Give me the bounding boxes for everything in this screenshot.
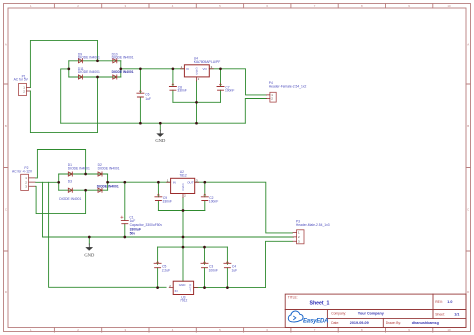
regulator U4: [180, 57, 220, 82]
diode D4: [97, 185, 119, 193]
svg-text:100nF: 100nF: [209, 268, 218, 272]
svg-text:DIODE IN4001: DIODE IN4001: [112, 56, 134, 60]
svg-text:Sheet:: Sheet:: [435, 313, 445, 317]
svg-text:AC for 5V: AC for 5V: [14, 78, 29, 82]
svg-text:A: A: [5, 43, 7, 47]
junction C8 top: [172, 67, 175, 70]
junction C4 bottom: [226, 286, 229, 289]
junction bridge2 AC2 tap: [84, 189, 87, 192]
junction C5 bottom: [156, 286, 159, 289]
capacitor C5: [154, 247, 170, 287]
junction C9 top: [157, 181, 160, 184]
junction U2 gnd chain ground bus: [182, 236, 185, 239]
ground symbol top circuit: [155, 123, 166, 143]
junction bridge1 negative tie: [67, 68, 70, 71]
output rail U4 to P4: [209, 69, 266, 95]
junction bridge2 negative tie: [57, 181, 60, 184]
junction bridge1 AC1 tap: [96, 59, 99, 62]
output rail U2 to P3 pin1: [195, 182, 293, 233]
bridge1 left tie wire: [68, 61, 70, 77]
svg-text:GND: GND: [155, 138, 166, 143]
junction C3 top: [203, 246, 206, 249]
regulator U3: [169, 281, 197, 302]
svg-text:VO: VO: [203, 67, 208, 71]
svg-text:100nF: 100nF: [209, 200, 218, 204]
capacitor C4: [224, 247, 237, 288]
junction C6 top: [139, 67, 142, 70]
svg-text:7812: 7812: [179, 173, 187, 177]
svg-text:DIODE IN4001: DIODE IN4001: [112, 70, 134, 74]
capacitor C7: [217, 69, 234, 102]
svg-text:Drawn By:: Drawn By:: [386, 321, 401, 325]
svg-text:B: B: [467, 124, 469, 128]
main ground bus bottom circuit: [43, 236, 294, 238]
wire P1 pin2 to bridge AC2: [30, 77, 97, 133]
svg-text:A: A: [467, 43, 469, 47]
bridge2 right tie wire: [107, 174, 109, 190]
junction bridge2 AC1 tap: [84, 173, 87, 176]
wire P2 pin2 to bridge2 negative tie: [36, 181, 59, 183]
regulator U2: [167, 170, 199, 198]
diode D1: [68, 163, 90, 176]
junction U4 gnd local bus: [195, 101, 198, 104]
ground rail top circuit: [61, 122, 246, 124]
diode D9: [78, 52, 100, 63]
svg-text:C: C: [467, 208, 469, 212]
svg-text:1.0: 1.0: [447, 300, 452, 304]
wire U2 GND chain down to U3: [182, 198, 184, 282]
bridge2 rail top wire: [59, 173, 108, 175]
svg-text:Your Company: Your Company: [358, 312, 385, 316]
junction C6 bottom ground rail: [139, 122, 142, 125]
svg-text:100nF: 100nF: [225, 89, 234, 93]
junction bridge2 positive tie: [106, 181, 109, 184]
junction C1 bottom ground bus: [123, 236, 126, 239]
svg-text:Header-Female-2.54_1x2: Header-Female-2.54_1x2: [269, 85, 307, 89]
junction bridge1 positive tie: [119, 67, 122, 70]
capacitor C8: [169, 69, 186, 102]
wire P1 pin1 to bridge AC1: [30, 40, 97, 87]
svg-text:D: D: [5, 290, 7, 294]
svg-text:DIODE IN4001: DIODE IN4001: [78, 70, 100, 74]
junction U4 gnd ground rail: [195, 122, 198, 125]
EasyEDA logo: [288, 311, 328, 324]
capacitor C1 3300uF: [121, 182, 163, 236]
positive rail bridge1 to U4: [121, 68, 185, 70]
positive rail bridge2 to U2: [108, 181, 171, 183]
svg-text:C: C: [5, 208, 7, 212]
junction C2 top: [203, 181, 206, 184]
svg-text:50v: 50v: [130, 231, 136, 235]
svg-text:B: B: [5, 124, 7, 128]
svg-text:1uF: 1uF: [232, 268, 238, 272]
wire ground rail to P4 pin2: [245, 99, 266, 124]
svg-text:REV:: REV:: [435, 300, 443, 304]
wire P2 pin1 to bridge2 AC1: [36, 150, 86, 178]
diode D12: [112, 70, 134, 79]
svg-text:GND: GND: [84, 253, 95, 258]
wire ground drop from pin2: [42, 182, 44, 236]
local ground bus U2: [158, 210, 204, 212]
svg-text:DIODE IN4001: DIODE IN4001: [97, 185, 119, 189]
svg-text:D: D: [196, 72, 198, 76]
svg-text:330nF: 330nF: [163, 200, 172, 204]
svg-text:1/1: 1/1: [454, 313, 459, 317]
svg-text:Company:: Company:: [331, 312, 346, 316]
capacitor C6: [137, 69, 151, 123]
capacitor C3: [201, 247, 218, 288]
bridge1 right tie wire: [120, 61, 122, 77]
junction ground symbol tap bottom circuit: [88, 236, 91, 239]
svg-text:D: D: [182, 188, 184, 192]
svg-text:Date:: Date:: [331, 321, 339, 325]
svg-text:330nF: 330nF: [177, 89, 186, 93]
svg-text:7912: 7912: [180, 299, 188, 303]
svg-text:VI: VI: [186, 67, 189, 71]
bridge1 rail bottom wire: [69, 76, 121, 78]
svg-text:EasyEDA: EasyEDA: [303, 318, 328, 324]
junction gnd chain sub rail: [182, 246, 185, 249]
svg-text:Sheet_1: Sheet_1: [310, 301, 330, 307]
svg-text:Header-Male-2.54_1x3: Header-Male-2.54_1x3: [296, 223, 330, 227]
wire bridge1 negative to ground rail: [61, 69, 69, 123]
connector P2 AC for +/-12V: [12, 166, 35, 191]
wire negative drop to U3: [49, 182, 167, 287]
ground symbol bottom circuit: [84, 237, 95, 258]
capacitor C9: [155, 182, 172, 210]
output rail U3 to P3 pin3: [194, 241, 293, 287]
junction C1 top: [123, 181, 126, 184]
svg-text:AC for +/-12V: AC for +/-12V: [12, 170, 33, 174]
diode D2: [98, 163, 120, 176]
sub rail caps top: [158, 246, 228, 248]
svg-text:DIODE IN4001: DIODE IN4001: [98, 166, 120, 170]
svg-text:GND: GND: [179, 283, 187, 287]
wire U4 GND pin chain: [196, 81, 198, 123]
junction U2 gnd local bus: [182, 209, 185, 212]
connector P4 Header-Female: [266, 81, 306, 102]
connector P1 AC for 5V: [14, 75, 31, 96]
svg-text:IN: IN: [175, 289, 178, 293]
svg-text:D3: D3: [68, 180, 72, 184]
svg-text:10: 10: [447, 328, 451, 332]
junction C3 bottom: [203, 286, 206, 289]
junction ground symbol tap top circuit: [159, 122, 162, 125]
diode D11: [78, 67, 100, 79]
local ground bus U4: [173, 101, 221, 103]
svg-text:DIODE IN4001: DIODE IN4001: [68, 166, 90, 170]
diode D3: [59, 180, 81, 201]
svg-text:2019-09-09: 2019-09-09: [350, 321, 369, 325]
title block: [285, 294, 466, 327]
svg-text:TITLE:: TITLE:: [288, 296, 298, 300]
svg-text:DIODE IN4001: DIODE IN4001: [59, 197, 81, 201]
connector P3 Header-Male: [293, 220, 330, 244]
svg-text:2.2uF: 2.2uF: [162, 268, 170, 272]
bridge1 rail top wire: [69, 60, 121, 62]
svg-text:Capacitor_3300uF50v: Capacitor_3300uF50v: [130, 223, 163, 227]
bridge2 left tie wire: [58, 174, 60, 190]
svg-text:KIA7805API-U/PF: KIA7805API-U/PF: [194, 60, 221, 64]
bridge2 rail bottom wire: [59, 189, 108, 191]
diode D10: [112, 52, 134, 63]
junction bridge1 AC2 tap: [96, 76, 99, 79]
svg-text:DIODE IN4001: DIODE IN4001: [78, 56, 100, 60]
svg-text:OUT: OUT: [187, 181, 194, 185]
svg-text:1uF: 1uF: [145, 97, 151, 101]
capacitor C2: [201, 182, 218, 210]
svg-text:D: D: [467, 290, 469, 294]
svg-text:10: 10: [447, 4, 451, 8]
junction C7 top: [219, 67, 222, 70]
svg-text:dhanushkamsg: dhanushkamsg: [412, 321, 439, 325]
wire P2 pin3 to bridge2 AC2: [36, 186, 86, 213]
svg-text:IN: IN: [173, 181, 176, 185]
